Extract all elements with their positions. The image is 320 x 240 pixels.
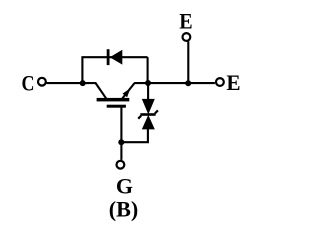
terminal E top circle xyxy=(183,33,191,41)
wire to top E terminal xyxy=(187,41,189,83)
wire gate lead vertical xyxy=(120,107,122,160)
svg-text:E: E xyxy=(226,70,240,95)
node dot aux emitter junction xyxy=(185,80,191,86)
diode D1 triangle xyxy=(110,50,123,65)
wire vertical from collector node to top rail xyxy=(81,57,83,83)
wire from TVS down and left to gate node xyxy=(121,129,148,143)
transistor Q1 collector lead xyxy=(83,83,107,99)
transistor Q1 channel bar xyxy=(97,98,130,102)
terminal G circle xyxy=(117,161,125,169)
svg-text:(B): (B) xyxy=(109,196,139,221)
node dot emitter junction xyxy=(145,80,151,86)
transistor Q1 emitter lead xyxy=(122,83,134,98)
wire from emitter node down to TVS xyxy=(147,83,149,100)
svg-text:C: C xyxy=(22,70,35,95)
wire right vertical from top rail to emitter rail xyxy=(147,57,149,83)
wire emitter rail horizontal xyxy=(134,82,215,84)
node dot at collector junction xyxy=(80,80,86,86)
terminal C circle xyxy=(38,78,46,86)
svg-text:G: G xyxy=(116,174,133,199)
wire top rail xyxy=(81,56,147,58)
transistor Q1 gate bar xyxy=(107,105,126,108)
diode D1 cathode bar xyxy=(107,49,110,65)
svg-text:E: E xyxy=(179,9,192,34)
TVS zener Z1 middle bar xyxy=(140,113,155,116)
TVS zener Z1 bar left tail xyxy=(138,116,141,119)
wire C horizontal xyxy=(46,82,83,84)
node dot gate junction xyxy=(118,139,124,145)
TVS zener Z1 bar right tail xyxy=(155,110,158,113)
TVS zener Z1 bottom triangle xyxy=(142,115,155,129)
transistor Q1 emitter arrowhead xyxy=(123,88,131,97)
TVS zener Z1 top triangle xyxy=(142,99,155,115)
terminal E right circle xyxy=(216,78,224,86)
